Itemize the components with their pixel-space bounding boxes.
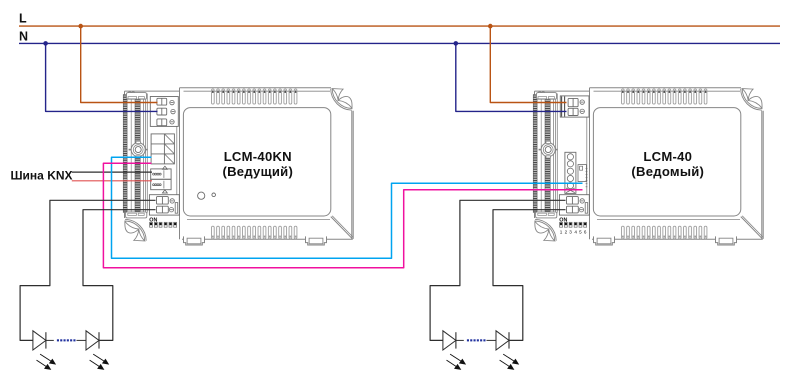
wire KNX link magenta U1->U2 bbox=[103, 163, 582, 268]
driver U1 LCM-40KN heatsink hatch strip 2 bbox=[135, 95, 140, 213]
U1 KNX terminal block bbox=[151, 134, 174, 164]
junction dot N/U1 bbox=[43, 41, 48, 46]
svg-text:LCM-40: LCM-40 bbox=[643, 149, 692, 164]
wire L drop to U1 bbox=[81, 26, 158, 102]
wire into D2 bbox=[77, 339, 87, 341]
driver U2 LCM-40 heatsink hatch strip 1 bbox=[533, 95, 537, 213]
driver U2 LCM-40 rail top clip bbox=[537, 92, 557, 100]
wire N drop to U1 bbox=[46, 43, 158, 111]
driver U2 LCM-40 top vent slots bbox=[622, 89, 707, 104]
junction dot N/U2 bbox=[454, 41, 459, 46]
wire D3-D4 segment bbox=[456, 339, 464, 341]
svg-text:(Ведомый): (Ведомый) bbox=[631, 164, 704, 179]
driver U2 LCM-40 DIN rail plate bbox=[535, 91, 590, 218]
junction dot L/U2 bbox=[488, 24, 493, 29]
driver U2 LCM-40 case outline bbox=[590, 88, 764, 240]
driver U2 LCM-40 face plate lower edge line bbox=[597, 219, 740, 221]
junction dot L/U1 bbox=[78, 24, 83, 29]
LED D2 bbox=[86, 331, 109, 370]
wire KNX bus red bbox=[72, 180, 152, 182]
U2 dimming terminal column bbox=[565, 152, 576, 193]
wire KNX bus black bbox=[72, 171, 152, 173]
svg-text:3: 3 bbox=[569, 230, 572, 235]
wire U1 LED- bbox=[83, 210, 156, 341]
svg-text:5: 5 bbox=[579, 230, 582, 235]
driver U1 LCM-40KN rail top clip bbox=[127, 92, 147, 100]
driver U1 LCM-40KN case outline bbox=[180, 88, 354, 240]
driver U2 LCM-40 rail bottom clip bbox=[536, 212, 557, 218]
driver U2 LCM-40 bottom vent slots bbox=[622, 226, 707, 239]
U2 DIP switch numbers 1-6 bbox=[560, 230, 587, 235]
U1 warning triangle below connector B bbox=[162, 190, 167, 193]
svg-text:6: 6 bbox=[584, 230, 587, 235]
dotted continuation string 1 bbox=[57, 339, 76, 341]
wire L (line) bbox=[19, 25, 780, 27]
wire KNX link cyan U1->U2 bbox=[112, 157, 583, 258]
svg-text:2: 2 bbox=[565, 230, 568, 235]
wire into D4 bbox=[487, 339, 497, 341]
U2 DC output terminal block bbox=[559, 195, 589, 215]
driver U2 LCM-40 face plate bbox=[593, 108, 740, 216]
svg-text:LCM-40KN: LCM-40KN bbox=[224, 149, 292, 164]
wire U1 LED+ bbox=[20, 200, 155, 340]
U1 warning triangle above connector A bbox=[162, 166, 167, 169]
LED D3 bbox=[443, 331, 466, 370]
driver U2 LCM-40 left mounting tab bbox=[594, 236, 615, 245]
svg-text:L: L bbox=[19, 12, 27, 26]
wire N (line) bbox=[19, 42, 780, 44]
svg-text:(Ведущий): (Ведущий) bbox=[222, 164, 293, 179]
driver U2 LCM-40 rail screw bbox=[539, 141, 558, 158]
svg-text:N: N bbox=[19, 29, 28, 43]
U2 DIP switch row bbox=[560, 222, 587, 227]
driver U1 LCM-40KN top-right corner bracket bbox=[331, 89, 352, 111]
dotted continuation string 2 bbox=[467, 339, 486, 341]
wire D1-D2 segment bbox=[46, 339, 54, 341]
driver U2 LCM-40 top-right corner bracket bbox=[741, 89, 762, 111]
driver U1 LCM-40KN face plate lower edge line bbox=[187, 219, 330, 221]
driver U2 LCM-40 bottom-left corner bracket bbox=[535, 219, 556, 241]
U1 front buttons bbox=[198, 192, 205, 199]
driver U1 LCM-40KN heatsink hatch strip 1 bbox=[123, 95, 127, 213]
driver U1 LCM-40KN rail screw bbox=[129, 141, 148, 158]
U1 AC input terminal block bbox=[150, 97, 178, 127]
driver U1 LCM-40KN bottom-left corner bracket bbox=[125, 219, 146, 241]
svg-text:1: 1 bbox=[560, 230, 563, 235]
U1 DC output terminal block bbox=[149, 195, 179, 215]
driver U1 LCM-40KN rail bottom clip bbox=[126, 212, 147, 218]
U2 AC input terminal block bbox=[560, 96, 589, 117]
driver U1 LCM-40KN top vent slots bbox=[212, 89, 297, 104]
U1 KNX connector B (bus out) bbox=[151, 179, 171, 189]
LED D4 bbox=[496, 331, 519, 370]
wire U2 LED+ bbox=[430, 200, 565, 340]
U1 KNX connector A (bus in) bbox=[151, 169, 171, 179]
wire U2 LED- bbox=[493, 210, 566, 341]
driver U2 LCM-40 heatsink hatch strip 2 bbox=[545, 95, 550, 213]
svg-text:4: 4 bbox=[574, 230, 577, 235]
LED D1 bbox=[33, 331, 56, 370]
driver U1 LCM-40KN right mounting tab bbox=[306, 236, 327, 245]
wire N drop to U2 bbox=[456, 43, 567, 111]
driver U1 LCM-40KN bottom vent slots bbox=[212, 226, 297, 239]
driver U1 LCM-40KN DIN rail plate bbox=[125, 91, 180, 218]
driver U1 LCM-40KN face plate bbox=[183, 108, 330, 216]
svg-text:Шина KNX: Шина KNX bbox=[11, 169, 73, 183]
driver U1 LCM-40KN left mounting tab bbox=[184, 236, 205, 245]
U1 DIP switch row bbox=[150, 222, 177, 227]
driver U2 LCM-40 right mounting tab bbox=[716, 236, 737, 245]
wire L drop to U2 bbox=[490, 26, 566, 102]
U2 auxiliary pin connector bbox=[578, 165, 587, 187]
